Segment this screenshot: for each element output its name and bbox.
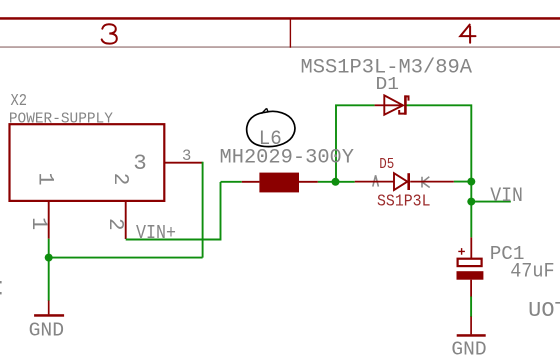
svg-text:VIN+: VIN+ bbox=[136, 222, 176, 244]
svg-text:VIN: VIN bbox=[490, 185, 523, 208]
svg-text:X2: X2 bbox=[11, 91, 28, 110]
svg-text:2: 2 bbox=[108, 173, 131, 186]
svg-text:D5: D5 bbox=[379, 157, 394, 173]
svg-text:MH2029-300Y: MH2029-300Y bbox=[220, 147, 355, 170]
svg-text:D1: D1 bbox=[376, 75, 400, 95]
svg-text:2: 2 bbox=[103, 218, 126, 231]
svg-text:UOT: UOT bbox=[528, 299, 560, 323]
svg-text:GND: GND bbox=[451, 339, 486, 361]
svg-text:SS1P3L: SS1P3L bbox=[377, 192, 431, 211]
svg-text:3: 3 bbox=[133, 150, 147, 176]
svg-text:GND: GND bbox=[29, 320, 65, 342]
svg-text:47uF: 47uF bbox=[510, 261, 554, 284]
svg-text:1: 1 bbox=[33, 172, 58, 185]
svg-text:1: 1 bbox=[26, 217, 51, 230]
